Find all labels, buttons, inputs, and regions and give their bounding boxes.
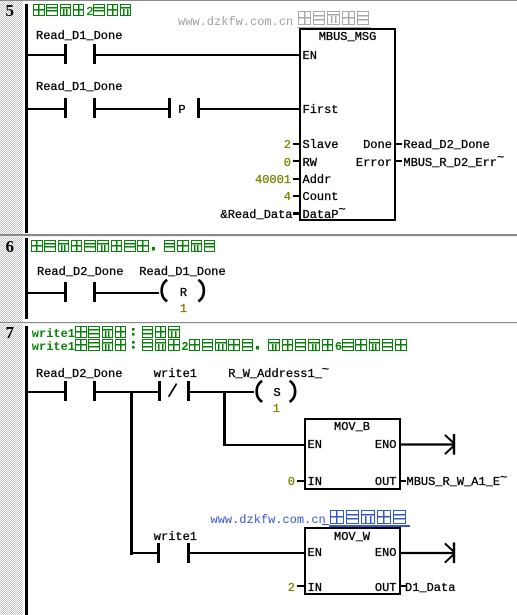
- contact Read_D2_Done label: [37, 266, 123, 278]
- value 4 (Count): [284, 191, 291, 203]
- coil S operand label R_W_Address1_~: [228, 368, 329, 380]
- contact write1 right bar: [187, 543, 190, 563]
- coil R operand label Read_D1_Done: [139, 266, 225, 278]
- wire: contact 2 to P contact: [96, 108, 168, 110]
- separator network 5/6: [0, 234, 517, 236]
- pin stub OUT (MOV_B): [401, 480, 407, 482]
- contact Read_D1_Done right bar: [93, 44, 96, 64]
- contact Read_D1_Done (rung 2) left bar: [64, 98, 67, 118]
- left power rail network 7: [25, 326, 28, 615]
- network 6 comment: 读取从站输入点完成，复位请求: [31, 240, 217, 252]
- wire: branch down to rung 4 (vertical): [130, 391, 133, 555]
- wire: P contact to MBUS_MSG First: [200, 108, 300, 110]
- instruction box U5 MBUS_MSG: [299, 28, 396, 221]
- network number 6: [6, 238, 15, 255]
- pin stub IN (MOV_W): [297, 585, 304, 587]
- contact write1 (negated) label: [154, 368, 197, 380]
- contact write1 negated left bar: [158, 381, 161, 401]
- box title MOV_W: [334, 531, 370, 543]
- box title MOV_B: [334, 421, 370, 433]
- contact Read_D1_Done (rung 2) right bar: [93, 98, 96, 118]
- pin ENO (MOV_W): [375, 547, 397, 559]
- contact P right bar: [197, 98, 200, 118]
- wire: contact 1 to MBUS_MSG EN: [96, 54, 301, 56]
- contact write1 (rung 4) label: [154, 531, 197, 543]
- operand MBUS_R_D2_Err~ (Error output): [403, 157, 504, 169]
- pin RW: [303, 157, 317, 169]
- contact Read_D2_Done left bar: [64, 282, 67, 302]
- contact Read_D1_Done (normally open) left bar: [64, 44, 67, 64]
- box title MBUS_MSG: [319, 31, 377, 43]
- operand MBUS_R_W_A1_E~ (MOV_B OUT): [407, 476, 508, 488]
- coil S letter: [274, 387, 281, 399]
- network number 5: [6, 2, 15, 19]
- wire: rail to contact 1: [28, 54, 64, 56]
- pin OUT (MOV_B): [375, 476, 397, 488]
- operand &Read_Data (DataP): [221, 209, 293, 221]
- pin Done: [363, 139, 392, 151]
- pin ENO (MOV_B): [375, 439, 397, 451]
- separator light band 2: [0, 323, 517, 324]
- pin Error: [356, 157, 392, 169]
- pin DataP~: [303, 209, 346, 221]
- pin stub Done: [396, 143, 403, 145]
- left power rail network 6: [25, 238, 28, 320]
- value 2 (Slave): [284, 139, 291, 151]
- pin IN (MOV_W): [308, 582, 322, 594]
- operand Read_D2_Done (Done output): [403, 139, 489, 151]
- contact Read_D2_Done (net7) label: [36, 368, 122, 380]
- instruction box MOV_W: [304, 527, 401, 595]
- pin EN (MOV_B): [308, 439, 322, 451]
- network number 7: [6, 324, 15, 341]
- wire: negated contact to S coil: [190, 391, 254, 393]
- wire: rail to contact 2: [28, 108, 64, 110]
- watermark (grey): www.dzkfw.com.cn: [178, 16, 293, 28]
- wire: contact write1 to MOV_W EN: [190, 552, 304, 554]
- coil R letter: [180, 287, 187, 299]
- watermark (blue): 电子开发网: [330, 510, 408, 524]
- contact Read_D1_Done (rung 2) label: [36, 81, 122, 93]
- wire: rail to contact: [28, 292, 64, 294]
- wire: branch down to MOV_B EN (vertical): [223, 391, 226, 446]
- watermark underline (grey): [297, 27, 371, 29]
- wire: rail to contact (net7 rung1): [28, 391, 64, 393]
- pin stub OUT (MOV_W): [401, 585, 407, 587]
- contact Read_D2_Done right bar: [93, 282, 96, 302]
- separator light band: [0, 236, 517, 237]
- pin stub Count: [293, 195, 300, 197]
- network 7 comment line 1: write1为低电平：无操作: [32, 326, 182, 338]
- watermark underline (blue): [329, 525, 410, 527]
- pin stub Addr: [293, 178, 300, 180]
- pin EN: [303, 50, 317, 62]
- left power rail network 5: [25, 4, 28, 233]
- value 0 (RW): [284, 157, 291, 169]
- contact write1 left bar: [157, 543, 160, 563]
- pin stub Slave: [293, 143, 300, 145]
- separator network 6/7: [0, 322, 517, 324]
- operand D1_Data (MOV_W OUT): [405, 582, 455, 594]
- value 2 (MOV_W IN): [288, 582, 295, 594]
- network 5 comment: 读取设备2的信息: [33, 4, 133, 16]
- pin Slave: [303, 139, 339, 151]
- wire: branch to MOV_B EN (horizontal): [223, 444, 304, 446]
- watermark (blue): www.dzkfw.com.cn: [211, 514, 326, 526]
- coil R count value 1: [180, 303, 187, 315]
- wire: contact to negated contact: [96, 391, 159, 393]
- pin stub Error: [396, 160, 403, 162]
- pin OUT (MOV_W): [375, 582, 397, 594]
- value 0 (MOV_B IN): [288, 476, 295, 488]
- contact P letter: [178, 104, 185, 116]
- pin EN (MOV_W): [308, 547, 322, 559]
- pin First: [303, 104, 339, 116]
- contact write1 negated right bar: [187, 381, 190, 401]
- value 40001 (Addr): [255, 174, 291, 186]
- watermark underscore (blue): [322, 524, 329, 525]
- pin stub RW: [293, 160, 300, 162]
- coil S count value 1: [273, 403, 280, 415]
- contact Read_D2_Done (net7) right bar: [93, 381, 96, 401]
- pin stub IN (MOV_B): [297, 480, 304, 482]
- watermark (grey): 电子开发网: [298, 11, 371, 25]
- contact Read_D2_Done (net7) left bar: [64, 381, 67, 401]
- pin Addr: [303, 174, 332, 186]
- top separator: [0, 0, 517, 1]
- pin stub DataP: [293, 212, 300, 214]
- instruction box MOV_B: [304, 418, 401, 490]
- contact Read_D1_Done label: [36, 30, 122, 42]
- network margin strip: [0, 0, 23, 615]
- contact P (positive edge) left bar: [168, 98, 171, 118]
- network 7 comment line 2: write1为高电平：对设备2进行写操作，然后对设备6进行写操作: [32, 339, 409, 351]
- pin Count: [303, 191, 339, 203]
- wire: contact to R coil: [96, 292, 159, 294]
- wire: branch vertical to contact write1: [130, 552, 157, 554]
- pin IN (MOV_B): [308, 476, 322, 488]
